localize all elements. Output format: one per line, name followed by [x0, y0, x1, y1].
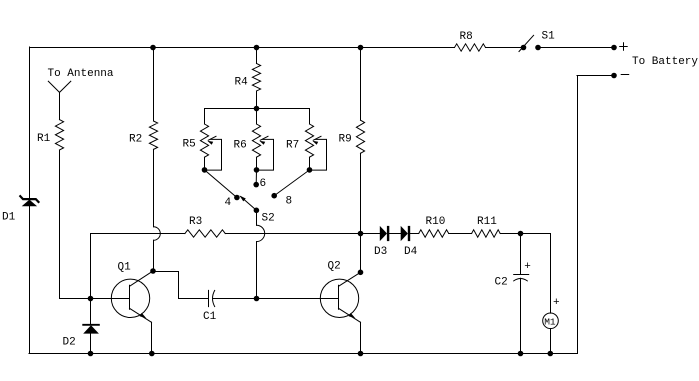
wire R8 to S1: [486, 47, 524, 49]
switch S1: [521, 45, 527, 51]
node top rail R4 junction: [254, 45, 260, 51]
wire D4 to R10: [410, 233, 419, 235]
wire R2 to Q1 collector: [153, 240, 155, 271]
wire R2 top lead: [153, 48, 155, 122]
wire M1 bottom lead: [550, 329, 552, 354]
resistor R1: [55, 120, 63, 150]
node C2 bottom junction: [518, 351, 524, 357]
capacitor C2: [514, 274, 529, 276]
svg-text:S2: S2: [262, 213, 275, 225]
wire collector to C1: [154, 272, 209, 299]
node Q1 collector junction: [150, 268, 156, 274]
wire junction to Q2 collector: [360, 234, 362, 273]
node S2 position 4: [234, 195, 240, 201]
potentiometer R7 wiper: [310, 139, 327, 170]
wire D3 anode lead: [361, 233, 380, 235]
wire left rail lower: [29, 201, 31, 353]
potentiometer R6: [256, 109, 258, 125]
node D2 bottom junction: [88, 351, 94, 357]
svg-text:R11: R11: [477, 216, 497, 228]
svg-text:R9: R9: [339, 134, 352, 146]
capacitor C1: [208, 290, 210, 306]
wire right rail: [577, 76, 579, 354]
wire R9 bottom lead: [360, 153, 362, 233]
node S2 pivot: [254, 208, 260, 214]
node pot feed junction: [254, 106, 260, 112]
resistor R2: [149, 121, 157, 149]
node C2 top junction: [518, 231, 524, 237]
svg-text:M1: M1: [544, 317, 556, 328]
node battery plus terminal: [611, 45, 617, 51]
svg-text:S1: S1: [542, 31, 556, 43]
transistor Q1 emitter lead: [130, 308, 152, 322]
transistor Q2 circle: [320, 279, 358, 317]
transistor Q2 emitter lead: [339, 308, 361, 322]
wire R4 bottom lead: [256, 91, 258, 109]
wire R6 to position 6: [255, 170, 257, 185]
node S2 position 6: [253, 182, 259, 188]
node top rail R2 junction: [150, 45, 156, 51]
wire D3 to D4: [389, 233, 400, 235]
node R5 bottom junction: [202, 167, 208, 173]
svg-text:+: +: [553, 297, 560, 309]
node C1-S2-Q2 base junction: [254, 296, 260, 302]
transistor Q1 base bar: [129, 285, 131, 309]
wire R10 to R11: [449, 233, 472, 235]
wire R7 to position 8: [274, 170, 309, 196]
svg-text:R7: R7: [286, 140, 299, 152]
resistor R4: [252, 64, 260, 92]
label battery plus: [620, 46, 628, 48]
svg-text:R6: R6: [234, 140, 247, 152]
node base-R3-D2 junction: [88, 296, 94, 302]
wire negative terminal lead: [577, 75, 614, 77]
diode D1 (zener): [20, 196, 38, 202]
node Q1 emitter junction: [149, 351, 155, 357]
node M1 bottom junction: [548, 351, 554, 357]
node R6 bottom junction: [254, 167, 260, 173]
wire R9 top lead: [360, 48, 362, 121]
wire C2 node to M1: [521, 233, 551, 235]
wire hop over R3 at S2: [257, 225, 265, 241]
svg-text:To Battery: To Battery: [632, 56, 698, 68]
wire bottom rail: [29, 353, 578, 355]
label battery minus: [621, 74, 629, 76]
node battery minus terminal: [611, 73, 617, 79]
svg-text:R1: R1: [37, 133, 51, 145]
wire R4 top lead: [256, 48, 258, 64]
resistor R3: [185, 230, 225, 237]
wire S1 to battery plus: [538, 47, 614, 49]
wire R5 to position 4: [205, 170, 237, 198]
svg-text:R10: R10: [426, 216, 446, 228]
potentiometer R6 wiper: [257, 139, 274, 170]
svg-text:R8: R8: [460, 31, 473, 43]
node R7 bottom junction: [307, 167, 313, 173]
svg-text:R3: R3: [189, 216, 202, 228]
svg-text:C1: C1: [203, 311, 217, 323]
switch S2 wiper arm: [241, 197, 257, 211]
resistor R8: [455, 44, 486, 51]
node top rail R9 junction: [358, 45, 364, 51]
node S2 position 8: [271, 193, 277, 199]
wire R1 bottom to base node: [59, 150, 61, 299]
node R3-R9-D3 junction: [358, 231, 364, 237]
wire R2 bottom lead: [153, 149, 155, 226]
svg-text:8: 8: [286, 196, 293, 208]
svg-text:D4: D4: [404, 246, 418, 258]
wire top rail left segment: [30, 47, 455, 49]
svg-text:D1: D1: [2, 212, 16, 224]
wire D2 top lead: [90, 299, 92, 325]
wire R3 left riser: [90, 234, 92, 299]
wire C2 top lead: [520, 234, 522, 275]
diode D3: [380, 226, 387, 241]
wire hop over R3 at R2: [154, 227, 161, 241]
svg-text:R4: R4: [235, 77, 249, 89]
svg-text:R2: R2: [129, 134, 142, 146]
wire Q2 base lead: [257, 298, 339, 300]
resistor R9: [356, 120, 364, 153]
wire left rail upper: [29, 47, 31, 198]
wire pot top bus: [205, 108, 310, 110]
diode D2: [83, 324, 99, 326]
wire C2 bottom lead: [520, 278, 522, 353]
svg-text:6: 6: [260, 178, 267, 190]
wire Q1 base lead: [91, 298, 130, 300]
wire R11 to C2 node: [500, 233, 520, 235]
wire R3 right segment: [225, 233, 360, 235]
wire S2 pole upper: [256, 210, 258, 225]
diode D4: [401, 226, 408, 241]
potentiometer R5: [204, 109, 206, 125]
transistor Q2 collector lead: [339, 272, 361, 286]
node Q2 emitter junction: [358, 351, 364, 357]
svg-text:To Antenna: To Antenna: [48, 68, 114, 80]
svg-text:Q2: Q2: [328, 261, 341, 273]
svg-text:D2: D2: [63, 337, 76, 349]
svg-text:Q1: Q1: [118, 262, 132, 274]
transistor Q1 collector lead: [130, 271, 154, 286]
svg-text:R5: R5: [183, 139, 196, 151]
svg-text:+: +: [524, 261, 531, 273]
wire S2 pole lower: [256, 242, 258, 299]
potentiometer R7: [309, 109, 311, 125]
svg-text:C2: C2: [495, 277, 508, 289]
potentiometer R5 wiper: [205, 139, 222, 170]
resistor R11: [472, 230, 501, 237]
svg-text:D3: D3: [374, 246, 387, 258]
antenna symbol: [48, 81, 71, 92]
transistor Q2 base bar: [338, 285, 340, 309]
transistor Q1 circle: [111, 279, 149, 317]
resistor R10: [419, 230, 449, 237]
svg-text:4: 4: [225, 197, 232, 209]
wire C1 to base node: [213, 298, 256, 300]
meter M1 circle: [543, 313, 559, 329]
node Q2 collector junction: [358, 270, 364, 276]
